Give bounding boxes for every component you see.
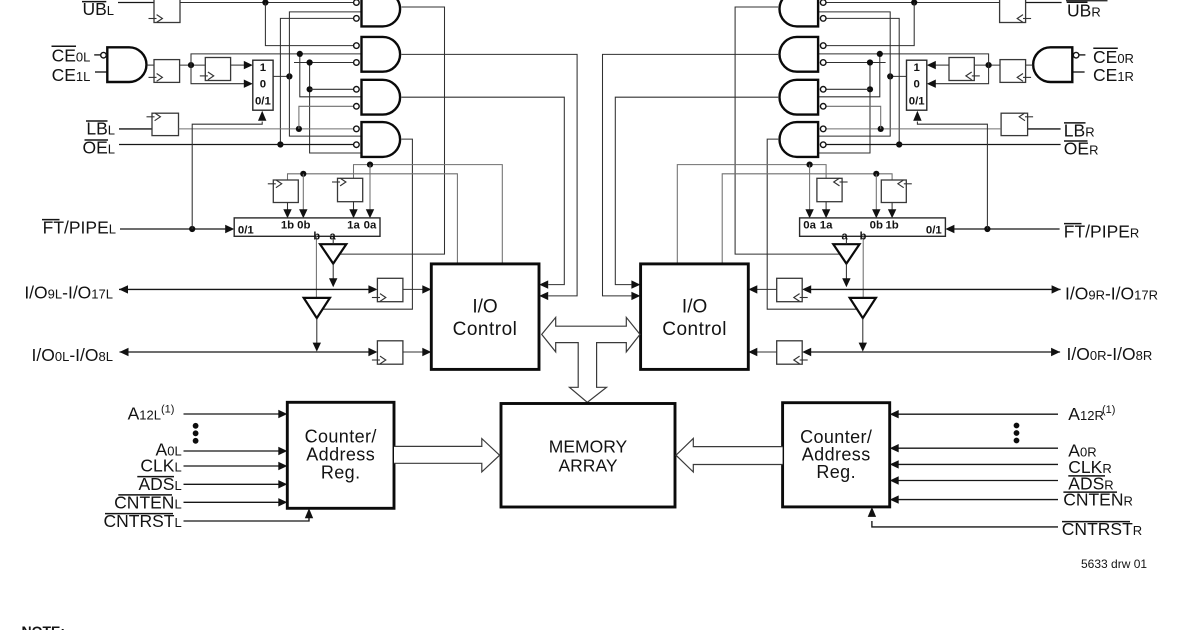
svg-text:a: a (841, 231, 848, 243)
svg-text:Reg.: Reg. (816, 462, 856, 482)
svg-text:Address: Address (306, 444, 375, 464)
svg-text:0a: 0a (364, 220, 377, 232)
svg-text:0: 0 (914, 79, 920, 91)
svg-text:b: b (313, 231, 320, 243)
svg-text:FT/PIPEL: FT/PIPEL (43, 217, 116, 237)
svg-text:1: 1 (914, 62, 921, 74)
svg-text:0/1: 0/1 (926, 225, 942, 237)
svg-text:0: 0 (260, 79, 266, 91)
svg-text:Counter/: Counter/ (305, 426, 377, 446)
svg-text:Reg.: Reg. (321, 462, 361, 482)
svg-text:5633 drw 01: 5633 drw 01 (1081, 557, 1147, 571)
svg-text:ARRAY: ARRAY (559, 456, 618, 476)
svg-text:0a: 0a (803, 220, 816, 232)
svg-text:1a: 1a (347, 220, 360, 232)
svg-text:0/1: 0/1 (238, 225, 254, 237)
svg-text:FT/PIPER: FT/PIPER (1064, 221, 1140, 241)
svg-text:0b: 0b (297, 220, 310, 232)
svg-text:1: 1 (260, 62, 267, 74)
svg-text:UBL: UBL (82, 0, 114, 19)
svg-text:1a: 1a (820, 220, 833, 232)
svg-text:I/O: I/O (682, 297, 707, 318)
svg-text:I/O: I/O (472, 297, 497, 318)
svg-text:(1): (1) (161, 403, 174, 415)
svg-text:NOTE:: NOTE: (22, 623, 66, 630)
svg-text:Control: Control (453, 319, 518, 340)
svg-text:a: a (329, 231, 336, 243)
svg-text:0b: 0b (870, 220, 883, 232)
svg-text:0/1: 0/1 (909, 96, 925, 108)
svg-text:(1): (1) (1102, 404, 1115, 416)
svg-text:MEMORY: MEMORY (549, 437, 628, 457)
svg-text:1b: 1b (885, 220, 898, 232)
svg-text:Control: Control (662, 319, 727, 340)
svg-text:0/1: 0/1 (255, 96, 271, 108)
svg-text:b: b (860, 231, 867, 243)
svg-text:1b: 1b (281, 220, 294, 232)
